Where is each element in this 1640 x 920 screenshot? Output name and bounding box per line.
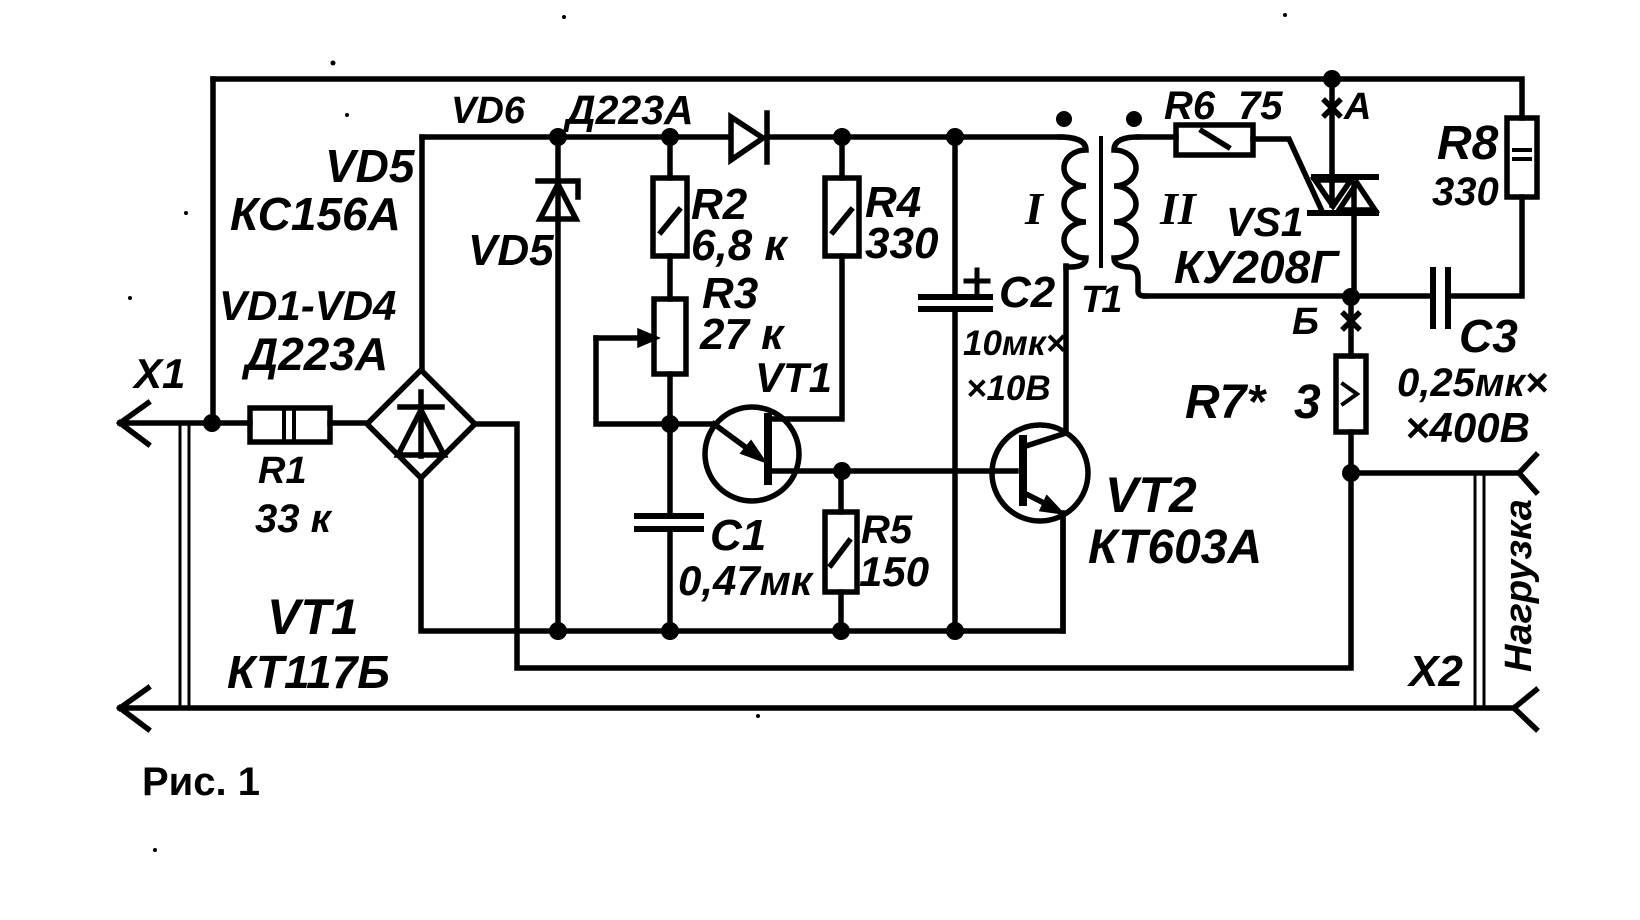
svg-text:КУ208Г: КУ208Г — [1174, 241, 1340, 293]
svg-text:10мк×: 10мк× — [963, 324, 1066, 363]
transistor VT2 — [992, 425, 1088, 521]
svg-text:КТ603А: КТ603А — [1088, 521, 1262, 574]
svg-text:Б: Б — [1292, 301, 1319, 343]
node R2 top dot — [661, 128, 679, 146]
wire R3 bottom to C1 — [667, 374, 673, 514]
transformer T1 secondary winding II — [1114, 137, 1145, 296]
wire VT2 collector to transformer primary — [1026, 266, 1066, 446]
svg-text:C3: C3 — [1459, 310, 1518, 362]
wire R6 to triac gate — [1253, 139, 1322, 211]
wire VD6 row (row2) — [422, 134, 1062, 140]
node A dot — [1323, 70, 1341, 88]
transformer T1 core — [1099, 138, 1103, 266]
svg-text:VT2: VT2 — [1105, 467, 1197, 523]
wire left vertical from top bus to X1 row — [210, 79, 216, 423]
wire R3 wiper arrow line — [596, 335, 642, 341]
svg-text:Рис. 1: Рис. 1 — [142, 760, 260, 804]
node R5 bottom dot — [832, 622, 850, 640]
wire C2 bottom lead — [952, 311, 958, 631]
wire R3 wiper tap down to VT1 emitter — [596, 338, 714, 424]
capacitor C1 — [637, 516, 701, 529]
capacitor C3 — [1433, 270, 1448, 326]
resistor R6 — [1176, 125, 1253, 155]
transformer T1 primary winding I — [1060, 137, 1086, 267]
resistor R7 — [1336, 356, 1366, 432]
svg-text:T1: T1 — [1081, 279, 1121, 321]
wire R4 top lead — [839, 137, 845, 178]
wire VT2 emitter down to bus — [1060, 513, 1066, 631]
svg-text:X1: X1 — [132, 350, 185, 397]
svg-text:C2: C2 — [999, 268, 1056, 317]
capacitor C2 polarized — [921, 270, 990, 309]
svg-text:X2: X2 — [1406, 647, 1463, 696]
wire R5 top lead — [838, 471, 844, 512]
svg-text:0,25мк×: 0,25мк× — [1397, 361, 1548, 405]
node B dot — [1342, 288, 1360, 306]
svg-text:I: I — [1024, 183, 1045, 234]
node C2 bottom dot — [946, 622, 964, 640]
svg-text:КС156А: КС156А — [230, 188, 401, 240]
wire R5 bottom lead — [838, 592, 844, 631]
resistor R5 — [825, 512, 857, 592]
wire C2 top lead — [952, 137, 958, 294]
svg-text:0,47мк: 0,47мк — [678, 557, 814, 604]
wire VT1 b1 row to VT2 base — [770, 468, 1016, 474]
svg-text:A: A — [1343, 86, 1371, 128]
svg-text:II: II — [1159, 183, 1198, 234]
wire R2 top lead — [667, 137, 673, 178]
wire top bus row1 — [213, 79, 1522, 118]
svg-text:VD1-VD4: VD1-VD4 — [219, 282, 396, 329]
node R4 top dot — [833, 128, 851, 146]
X2 top fork — [1519, 455, 1536, 492]
transformer primary phase dot — [1056, 111, 1072, 127]
svg-text:VT1: VT1 — [755, 354, 832, 401]
wire zener VD5 branch — [555, 137, 561, 631]
wire triac anode vertical — [1329, 79, 1335, 205]
test point A cross — [1325, 101, 1339, 115]
diode bridge VD1-VD4 — [367, 370, 475, 478]
wire bridge right vertex down and along lower loop to R7 bottom junction — [474, 424, 1351, 668]
triac VS1 — [1310, 177, 1376, 213]
wire X1 terminal to R1 — [120, 420, 250, 426]
wire R7 junction to X2 top terminal — [1351, 470, 1519, 476]
svg-text:VD5: VD5 — [325, 140, 416, 192]
resistor R3 variable — [640, 299, 686, 374]
svg-text:×10В: ×10В — [966, 369, 1051, 408]
svg-text:Д223А: Д223А — [563, 87, 694, 133]
svg-text:R1: R1 — [258, 450, 307, 492]
node R3 wiper junction dot — [661, 415, 679, 433]
test point B cross — [1344, 314, 1358, 328]
resistor R2 — [653, 178, 687, 256]
svg-text:КТ117Б: КТ117Б — [227, 646, 390, 698]
svg-text:VT1: VT1 — [267, 589, 359, 645]
node C1 bottom dot — [661, 622, 679, 640]
X2 bottom fork — [1514, 690, 1536, 729]
svg-text:VS1: VS1 — [1226, 199, 1304, 245]
node VD5 top dot — [549, 128, 567, 146]
resistor R1 — [250, 408, 330, 442]
scan specks — [128, 13, 1287, 852]
node R5 top junction dot — [833, 462, 851, 480]
node R7 bottom junction dot — [1342, 464, 1360, 482]
wire R1 to bridge left vertex — [330, 420, 368, 426]
svg-text:R7*: R7* — [1185, 376, 1267, 429]
svg-text:R6: R6 — [1164, 84, 1216, 128]
svg-text:3: 3 — [1294, 376, 1321, 429]
wire triac cathode vertical to node B — [1351, 183, 1357, 296]
connector X1 double line — [180, 425, 189, 706]
transistor VT1 unijunction — [705, 407, 799, 501]
wire R8 bottom to C3 right plate — [1453, 197, 1522, 296]
svg-text:C1: C1 — [710, 511, 766, 560]
svg-text:R5: R5 — [861, 508, 913, 552]
svg-text:Нагрузка: Нагрузка — [1498, 499, 1540, 672]
svg-text:330: 330 — [865, 219, 939, 268]
svg-text:27 к: 27 к — [699, 310, 786, 359]
X1 arrow — [120, 403, 148, 444]
node C2 top dot — [946, 128, 964, 146]
bottom left arrow — [120, 688, 148, 729]
node X1 junction dot — [203, 414, 221, 432]
svg-text:6,8 к: 6,8 к — [691, 221, 789, 270]
svg-text:×400В: ×400В — [1405, 404, 1530, 451]
zener diode VD5 — [538, 181, 578, 219]
connector X2 double line — [1475, 475, 1484, 706]
svg-text:75: 75 — [1238, 84, 1283, 128]
wire C1 bottom lead — [667, 529, 673, 631]
svg-text:Д223А: Д223А — [241, 328, 388, 380]
wire bottom terminal line — [120, 705, 1514, 711]
node VD5 bottom dot — [549, 622, 567, 640]
resistor R4 — [825, 178, 859, 256]
wire bridge top vertex up to VD6 row — [419, 137, 425, 370]
wire secondary bottom return to node B — [1145, 293, 1433, 299]
svg-text:33 к: 33 к — [255, 497, 333, 541]
svg-text:330: 330 — [1432, 170, 1499, 214]
svg-text:VD5: VD5 — [468, 226, 554, 275]
wire node B to R7 top — [1348, 297, 1354, 356]
wire secondary top to R6 — [1138, 134, 1176, 140]
svg-text:VD6: VD6 — [451, 90, 526, 132]
wire bottom common bus of oscillator — [421, 477, 1063, 631]
resistor R8 — [1507, 118, 1537, 197]
wire R2-R3 link — [667, 256, 673, 299]
svg-text:150: 150 — [859, 548, 929, 595]
wire R7 bottom lead — [1348, 432, 1354, 473]
svg-text:R8: R8 — [1437, 117, 1499, 170]
transformer secondary phase dot — [1126, 111, 1142, 127]
diode VD6 — [731, 113, 767, 162]
wire VT1 b2 to R4 — [770, 256, 842, 419]
